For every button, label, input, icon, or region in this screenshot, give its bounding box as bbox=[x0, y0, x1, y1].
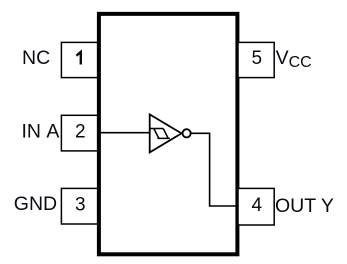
schmitt hysteresis symbol bbox=[150, 129, 170, 139]
svg-text:4: 4 bbox=[252, 195, 263, 216]
pin 3 box bbox=[61, 188, 97, 224]
wire pin2 to inverter input bbox=[99, 132, 150, 134]
svg-text:GND: GND bbox=[14, 193, 57, 215]
pin 5 box bbox=[238, 42, 274, 77]
svg-text:VCC: VCC bbox=[276, 47, 312, 71]
inverter U1 triangle bbox=[150, 114, 182, 152]
pin 4 box bbox=[238, 188, 274, 225]
pin 2 box bbox=[61, 115, 97, 151]
svg-text:IN A: IN A bbox=[22, 121, 60, 143]
inverter output bubble bbox=[183, 129, 191, 137]
pin number 1 bbox=[76, 52, 80, 65]
svg-text:3: 3 bbox=[75, 195, 86, 216]
pin 1 box bbox=[61, 42, 97, 77]
IC body U1 bbox=[99, 14, 238, 254]
wire bubble to pin4 bbox=[191, 133, 237, 206]
svg-text:NC: NC bbox=[22, 47, 50, 69]
svg-text:5: 5 bbox=[252, 48, 263, 69]
svg-text:2: 2 bbox=[75, 121, 86, 142]
svg-text:OUT Y: OUT Y bbox=[275, 195, 334, 217]
